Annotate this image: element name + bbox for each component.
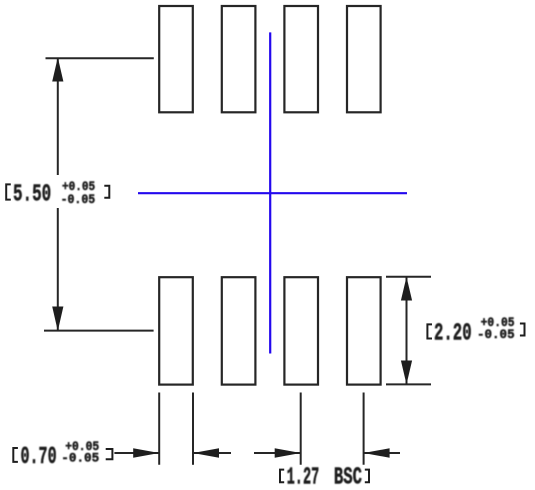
dim 2.20 up arrow [401,277,412,301]
dim 5.50 label close bracket [104,186,109,198]
dim 0.70 tail line right [193,452,231,454]
svg-text:BSC: BSC [334,464,362,490]
svg-text:-0.05: -0.05 [61,192,96,207]
dim 5.50 label open bracket [6,184,11,199]
dim 2.20 label close bracket [520,324,525,336]
pad P1 top [159,6,193,112]
dim 1.27 BSC left extension line (pad P7 center) [300,393,302,465]
dim 1.27 BSC leader line left [254,452,301,454]
dim 0.70 left extension line [158,393,160,465]
dim 1.27 BSC right extension line (pad P8 center) [363,393,365,465]
svg-text:5.50: 5.50 [13,182,51,209]
dim 0.70 label open bracket [13,448,18,462]
dim 2.20 down arrow [401,361,412,385]
pad P7 bottom [284,277,318,384]
pad P5 bottom [159,277,193,384]
dim 1.27 BSC left arrow (points left) [364,448,390,457]
dim 2.20 top extension line [386,276,431,278]
svg-text:-0.05: -0.05 [477,327,515,342]
dim 1.27 BSC tail line right [364,452,400,454]
dim 0.70 leader line left [114,452,159,454]
dim 2.20 bottom extension line [386,383,431,385]
dim 0.70 left arrow (points left) [193,448,219,457]
svg-text:2.20: 2.20 [434,320,472,347]
dim 1.27 BSC label close bracket [365,470,369,483]
dim 0.70 label close bracket [106,449,113,459]
dim 5.50 line lower segment [57,208,59,331]
pad P2 top [222,6,256,112]
centerline vertical (blue) [269,32,271,353]
dim 1.27 BSC label open bracket [280,470,284,483]
dim 1.27 BSC right arrow (points right) [275,448,301,457]
svg-text:1.27: 1.27 [287,464,320,490]
pad P6 bottom [222,277,256,384]
dim 0.70 right extension line [192,393,194,465]
pad P8 bottom [347,277,381,384]
dim 5.50 top extension line [46,57,154,59]
dim 2.20 line [406,277,408,385]
pad P3 top [284,6,318,112]
dim 2.20 label open bracket [427,324,432,338]
dim 5.50 bottom extension line [44,330,154,332]
dim 5.50 down arrow [52,307,63,332]
dim 5.50 line upper segment [57,58,59,175]
dim 5.50 up arrow [52,57,63,81]
svg-text:0.70: 0.70 [21,444,57,471]
dim 0.70 right arrow (points right) [133,448,159,457]
centerline horizontal (blue) [138,192,407,194]
pad P4 top [347,6,381,112]
svg-text:-0.05: -0.05 [61,451,99,466]
